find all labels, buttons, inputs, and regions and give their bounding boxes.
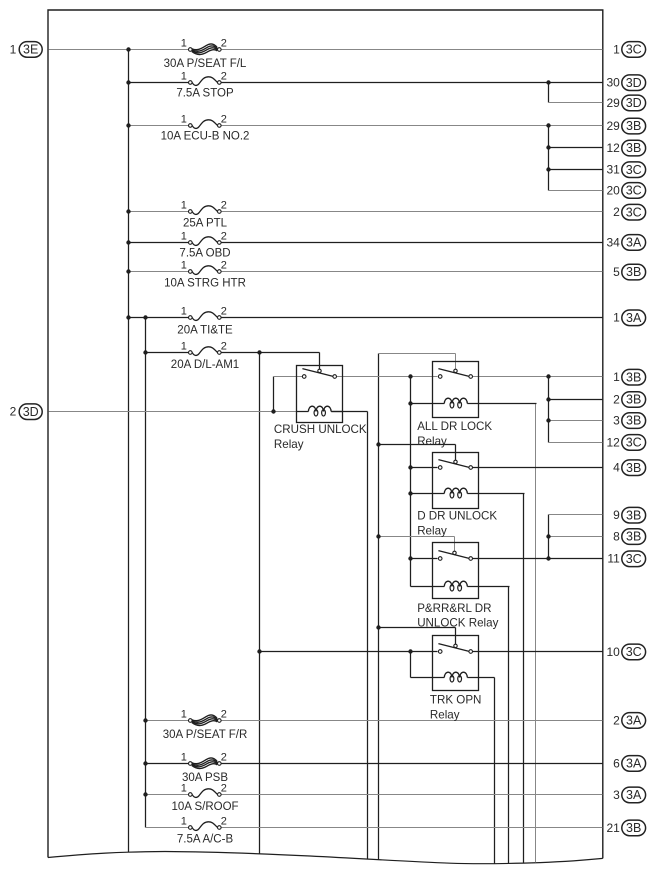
svg-text:2: 2 bbox=[221, 113, 227, 125]
node 21(3B) connector pin label bbox=[606, 820, 645, 836]
wire branch to pins 9-3B 8-3B bbox=[547, 515, 549, 559]
svg-text:2: 2 bbox=[221, 37, 227, 49]
svg-text:20A D/L-AM1: 20A D/L-AM1 bbox=[171, 359, 239, 371]
svg-text:3C: 3C bbox=[626, 436, 642, 450]
wire feed to TRK OPN relay common bbox=[378, 627, 455, 629]
svg-text:3B: 3B bbox=[626, 119, 641, 133]
junction lower bus / S-ROOF row bbox=[143, 792, 147, 796]
svg-text:2: 2 bbox=[221, 815, 227, 827]
svg-text:CRUSH UNLOCK: CRUSH UNLOCK bbox=[274, 423, 367, 436]
svg-text:3: 3 bbox=[613, 788, 620, 802]
relay ALL DR LOCK bbox=[433, 362, 479, 418]
svg-text:Relay: Relay bbox=[417, 435, 447, 448]
svg-text:1: 1 bbox=[181, 37, 187, 49]
wire P&RR&RL contact to pin 11-3C bbox=[472, 558, 602, 560]
wire to pin 20-3C bbox=[549, 190, 603, 192]
junction TRK contact row branch bbox=[408, 649, 412, 653]
wire PSB fuse row left bbox=[145, 762, 188, 764]
label TRK OPN Relay bbox=[430, 694, 482, 722]
wire D/L-AM1 fuse output bbox=[222, 351, 320, 353]
svg-text:1: 1 bbox=[181, 815, 187, 827]
wire 3D input row to CRUSH coil bbox=[49, 410, 309, 412]
wire P&RR&RL contact input bbox=[410, 558, 437, 560]
wire D DR UNLOCK contact to pin 4-3B bbox=[472, 467, 602, 469]
svg-text:1: 1 bbox=[181, 113, 187, 125]
wire branch to pins 12-3B 31-3C 20-3C bbox=[548, 126, 550, 191]
svg-text:1: 1 bbox=[181, 199, 187, 211]
wire ALL DR LOCK contact to pin 1-3B bbox=[473, 376, 603, 378]
wire P/SEAT F/R fuse row left bbox=[145, 719, 188, 721]
svg-text:3C: 3C bbox=[626, 43, 642, 57]
relay D DR UNLOCK bbox=[432, 453, 478, 509]
svg-text:2: 2 bbox=[10, 405, 17, 419]
relay TRK OPN bbox=[432, 636, 478, 691]
label CRUSH UNLOCK Relay bbox=[274, 423, 367, 451]
svg-text:3C: 3C bbox=[626, 163, 642, 177]
wire vertical bus along relay contacts/coils bbox=[409, 377, 411, 587]
wire STOP fuse to pin 30-3D bbox=[222, 81, 603, 83]
svg-text:1: 1 bbox=[181, 305, 187, 317]
fuse F5 7.5A OBD bbox=[179, 230, 230, 259]
svg-text:3E: 3E bbox=[23, 42, 38, 56]
svg-text:Relay: Relay bbox=[430, 708, 460, 721]
node 9(3B) connector pin label bbox=[613, 507, 645, 523]
junction 8-3B branch bbox=[546, 534, 550, 538]
wire TRK OPN relay common pin bbox=[454, 628, 456, 645]
node 31(3C) connector pin label bbox=[606, 162, 645, 178]
svg-text:Relay: Relay bbox=[274, 438, 304, 451]
svg-text:5: 5 bbox=[613, 265, 620, 279]
svg-text:3A: 3A bbox=[626, 757, 642, 771]
fuse F11 10A S/ROOF bbox=[171, 782, 238, 813]
wire feed to P&RR&RL relay common bbox=[378, 536, 454, 538]
label P&RR&RL DR UNLOCK Relay bbox=[417, 602, 498, 630]
fuse F2 7.5A STOP bbox=[176, 70, 234, 99]
svg-text:20A TI&TE: 20A TI&TE bbox=[177, 324, 233, 336]
svg-text:UNLOCK Relay: UNLOCK Relay bbox=[417, 617, 498, 630]
junction 3-3B branch bbox=[546, 418, 550, 422]
junction contact bus / P&RR contact row bbox=[408, 556, 412, 560]
node 6(3A) connector pin label bbox=[613, 756, 645, 772]
junction common bus / TRK feed bbox=[376, 625, 380, 629]
wire vertical bus feeding lower fuses bbox=[144, 317, 146, 827]
wire OBD fuse to pin 34-3A bbox=[222, 241, 603, 243]
svg-text:2: 2 bbox=[221, 340, 227, 352]
svg-text:30: 30 bbox=[606, 76, 620, 90]
node 12(3C) connector pin label bbox=[606, 435, 645, 451]
wire STOP fuse row left bbox=[129, 81, 189, 83]
svg-text:3A: 3A bbox=[626, 788, 642, 802]
junction 11-3C branch bbox=[546, 556, 550, 560]
svg-text:3B: 3B bbox=[626, 508, 641, 522]
wire PSB fuse to pin 6-3A bbox=[221, 762, 602, 764]
svg-text:3: 3 bbox=[613, 414, 620, 428]
wire feed to D DR UNLOCK relay common bbox=[379, 444, 456, 446]
svg-text:1: 1 bbox=[181, 259, 187, 271]
wire TRK OPN contact to pin 10-3C bbox=[471, 651, 602, 653]
fuse F1 30A P/SEAT F/L bbox=[164, 37, 247, 70]
fuse F7 20A TI&TE bbox=[177, 305, 233, 336]
svg-text:12: 12 bbox=[606, 435, 620, 449]
node 10(3C) connector pin label bbox=[606, 644, 645, 660]
junction 2-3B branch bbox=[546, 397, 550, 401]
node 2(3B) connector pin label bbox=[613, 392, 645, 408]
fuse F3 10A ECU-B NO.2 bbox=[161, 113, 250, 142]
node 2(3C) connector pin label bbox=[613, 204, 645, 220]
wire P/SEAT F/R fuse to pin 2-3A bbox=[221, 719, 602, 721]
svg-text:2: 2 bbox=[613, 713, 620, 727]
svg-text:3B: 3B bbox=[626, 461, 641, 475]
svg-text:2: 2 bbox=[221, 259, 227, 271]
wire to pin 31-3C bbox=[549, 169, 603, 171]
wire vertical from D/L-AM1 output bbox=[258, 352, 260, 853]
node 1(3A) connector pin label bbox=[613, 310, 645, 326]
wire ECU-B fuse to pin 29-3B bbox=[222, 124, 603, 126]
svg-text:10A S/ROOF: 10A S/ROOF bbox=[171, 801, 238, 813]
svg-text:3C: 3C bbox=[626, 552, 642, 566]
svg-text:10A ECU-B NO.2: 10A ECU-B NO.2 bbox=[161, 130, 250, 142]
svg-text:1: 1 bbox=[181, 340, 187, 352]
wire PTL fuse row left bbox=[129, 210, 189, 212]
wire TI&TE fuse to pin 1-3A bbox=[222, 316, 603, 318]
svg-text:7.5A STOP: 7.5A STOP bbox=[176, 87, 234, 99]
node 30(3D) connector pin label bbox=[606, 75, 645, 91]
junction 3E bus / OBD row bbox=[126, 240, 130, 244]
svg-text:11: 11 bbox=[607, 552, 620, 566]
svg-text:2: 2 bbox=[221, 199, 227, 211]
wire D/L-AM1 fuse row left bbox=[146, 351, 189, 353]
junction contact bus / D DR coil bbox=[408, 491, 412, 495]
node 2(3A) connector pin label bbox=[613, 713, 645, 729]
svg-text:12: 12 bbox=[606, 141, 620, 155]
wire feed to ALL DR LOCK relay common bbox=[379, 353, 456, 355]
label ALL DR LOCK Relay bbox=[417, 420, 492, 448]
svg-text:4: 4 bbox=[613, 461, 620, 475]
svg-text:25A PTL: 25A PTL bbox=[183, 218, 228, 230]
svg-text:3B: 3B bbox=[626, 370, 641, 384]
junction contact bus / switch row bbox=[408, 374, 412, 378]
svg-text:8: 8 bbox=[613, 530, 620, 544]
svg-text:Relay: Relay bbox=[417, 525, 447, 538]
wire branch to CRUSH UNLOCK relay contact bbox=[273, 376, 275, 411]
wire S/ROOF fuse to pin 3-3A bbox=[221, 793, 602, 795]
svg-text:3A: 3A bbox=[626, 236, 642, 250]
node 12(3B) connector pin label bbox=[606, 140, 645, 156]
junction 3D row / CRUSH contact branch bbox=[271, 409, 275, 413]
wire vertical bus feeding relay commons bbox=[377, 354, 379, 860]
junction lower bus / P-SEAT F-R row bbox=[143, 718, 147, 722]
svg-text:1: 1 bbox=[613, 311, 620, 325]
junction lower bus / PSB row bbox=[143, 761, 147, 765]
wire P&RR&RL coil output to bottom bbox=[507, 587, 509, 864]
wire OBD fuse row left bbox=[129, 241, 189, 243]
node 1(3B) connector pin label bbox=[613, 369, 645, 385]
wire to pin 29-3D bbox=[549, 102, 603, 104]
wire TRK OPN coil input bbox=[410, 677, 432, 679]
svg-text:2: 2 bbox=[613, 205, 620, 219]
torn-edge bottom border curve bbox=[48, 851, 603, 863]
svg-text:2: 2 bbox=[221, 708, 227, 720]
wire A/C-B fuse to pin 21-3B bbox=[221, 826, 602, 828]
wire from CRUSH UNLOCK relay coil to bottom bbox=[366, 412, 368, 859]
svg-text:1: 1 bbox=[613, 42, 620, 56]
svg-text:3B: 3B bbox=[626, 821, 641, 835]
svg-text:3D: 3D bbox=[626, 96, 642, 110]
wire P&RR&RL coil input bbox=[410, 586, 432, 588]
svg-text:29: 29 bbox=[606, 119, 620, 133]
wire STRG HTR fuse to pin 5-3B bbox=[222, 270, 603, 272]
svg-text:2: 2 bbox=[221, 782, 227, 794]
svg-text:1: 1 bbox=[613, 370, 620, 384]
wire to pin 3-3B bbox=[549, 420, 603, 422]
svg-text:30A P/SEAT F/L: 30A P/SEAT F/L bbox=[164, 58, 247, 70]
fuse F9 30A P/SEAT F/R bbox=[163, 708, 248, 741]
node 2(3D) connector pin label bbox=[10, 404, 43, 420]
wire P&RR&RL DR UNLOCK relay common pin bbox=[453, 537, 455, 552]
wire CRUSH relay contact input bbox=[274, 375, 303, 377]
node 3(3A) connector pin label bbox=[613, 787, 645, 803]
junction common bus / D DR feed bbox=[376, 442, 380, 446]
relay P&RR&RL DR UNLOCK bbox=[432, 543, 478, 599]
svg-text:3B: 3B bbox=[626, 414, 641, 428]
wire ALL DR coil output bbox=[479, 403, 537, 405]
wire ALL DR coil input bbox=[411, 403, 433, 405]
wire to pin 12-3C bbox=[549, 442, 603, 444]
wire branch TRK OPN contact to coil bbox=[409, 652, 411, 678]
node 5(3B) connector pin label bbox=[613, 264, 645, 280]
svg-text:3B: 3B bbox=[626, 141, 641, 155]
wire branch to pin 29-3D bbox=[548, 83, 550, 103]
wire D DR coil output to bottom bbox=[522, 494, 524, 864]
junction 1-3B branch bbox=[546, 374, 550, 378]
svg-text:9: 9 bbox=[613, 508, 620, 522]
wire TRK OPN coil output bbox=[478, 677, 494, 679]
fuse F8 20A D/L-AM1 bbox=[171, 340, 239, 371]
wire P&RR&RL coil output bbox=[478, 586, 509, 588]
junction TRK OPN contact feed bbox=[257, 649, 261, 653]
wire 3E input row left of fuse bbox=[49, 48, 189, 50]
svg-text:2: 2 bbox=[221, 70, 227, 82]
svg-text:3D: 3D bbox=[626, 76, 642, 90]
svg-text:6: 6 bbox=[613, 756, 620, 770]
svg-text:29: 29 bbox=[606, 96, 620, 110]
svg-text:3C: 3C bbox=[626, 184, 642, 198]
svg-text:2: 2 bbox=[221, 305, 227, 317]
svg-text:ALL DR LOCK: ALL DR LOCK bbox=[417, 420, 492, 433]
junction lower bus / TI&TE row bbox=[143, 315, 147, 319]
wire to pin 2-3B bbox=[549, 399, 603, 401]
wire to pin 9-3B bbox=[548, 514, 602, 516]
svg-text:3A: 3A bbox=[626, 714, 642, 728]
svg-text:3C: 3C bbox=[626, 205, 642, 219]
wire to pin 12-3B bbox=[549, 147, 603, 149]
junction contact bus / D DR contact row bbox=[408, 465, 412, 469]
node 20(3C) connector pin label bbox=[606, 183, 645, 199]
junction 29-3B branch bbox=[546, 123, 550, 127]
junction 3E bus / STRG HTR row bbox=[126, 269, 130, 273]
wire ALL DR LOCK relay common pin bbox=[455, 354, 457, 370]
junction 3E bus / ECU-B row bbox=[126, 123, 130, 127]
junction 12-3B branch bbox=[546, 145, 550, 149]
svg-text:7.5A A/C-B: 7.5A A/C-B bbox=[177, 834, 234, 846]
junction lower bus / D/L-AM1 row bbox=[143, 350, 147, 354]
svg-text:1: 1 bbox=[10, 42, 17, 56]
junction common bus / P&RR feed bbox=[376, 534, 380, 538]
svg-text:30A P/SEAT F/R: 30A P/SEAT F/R bbox=[163, 729, 248, 741]
svg-text:7.5A OBD: 7.5A OBD bbox=[179, 247, 230, 259]
svg-text:10A STRG HTR: 10A STRG HTR bbox=[164, 278, 246, 290]
svg-text:10: 10 bbox=[606, 645, 620, 659]
fuse F12 7.5A A/C-B bbox=[177, 815, 234, 845]
node 8(3B) connector pin label bbox=[613, 529, 645, 545]
svg-text:2: 2 bbox=[221, 751, 227, 763]
wire branch to pins 2-3B 3-3B 12-3C bbox=[548, 377, 550, 443]
svg-text:3B: 3B bbox=[626, 530, 641, 544]
fuse F10 30A PSB bbox=[181, 751, 229, 784]
wire CRUSH UNLOCK relay common pin bbox=[319, 353, 321, 370]
node 1(3E) connector pin label bbox=[10, 42, 43, 58]
wire to pin 8-3B bbox=[548, 536, 602, 538]
wire D DR UNLOCK contact input bbox=[410, 467, 437, 469]
svg-text:3A: 3A bbox=[626, 311, 642, 325]
junction D/L-AM1 output branch bbox=[257, 350, 261, 354]
wire A/C-B fuse row left bbox=[145, 826, 188, 828]
node 29(3B) connector pin label bbox=[606, 118, 645, 134]
wire TI&TE fuse row left bbox=[129, 316, 189, 318]
svg-text:20: 20 bbox=[606, 183, 620, 197]
node 29(3D) connector pin label bbox=[606, 95, 645, 111]
wire TRK OPN coil output to bottom bbox=[493, 678, 495, 864]
svg-text:D DR UNLOCK: D DR UNLOCK bbox=[417, 510, 497, 523]
svg-text:1: 1 bbox=[181, 708, 187, 720]
wire ECU-B fuse row left bbox=[129, 124, 189, 126]
relay CRUSH UNLOCK bbox=[297, 365, 343, 422]
svg-text:31: 31 bbox=[606, 163, 620, 177]
junction 3E bus / P-SEAT F-L row bbox=[126, 47, 130, 51]
svg-text:TRK OPN: TRK OPN bbox=[430, 694, 482, 707]
wire ALL DR coil output to bottom bbox=[534, 404, 536, 863]
svg-text:P&RR&RL DR: P&RR&RL DR bbox=[417, 602, 491, 615]
junction 30-3D / 29-3D branch bbox=[546, 80, 550, 84]
fuse F6 10A STRG HTR bbox=[164, 259, 246, 289]
svg-text:1: 1 bbox=[181, 70, 187, 82]
svg-text:3B: 3B bbox=[626, 393, 641, 407]
wire vertical bus from 3E feed bbox=[127, 49, 129, 852]
svg-text:3C: 3C bbox=[626, 645, 642, 659]
svg-text:1: 1 bbox=[181, 782, 187, 794]
junction 3E bus / STOP row bbox=[126, 80, 130, 84]
svg-text:1: 1 bbox=[181, 230, 187, 242]
svg-text:2: 2 bbox=[613, 392, 620, 406]
svg-text:2: 2 bbox=[221, 230, 227, 242]
node 1(3C) connector pin label bbox=[613, 42, 645, 58]
wire TRK OPN contact input bbox=[259, 650, 437, 652]
node 4(3B) connector pin label bbox=[613, 460, 645, 476]
label D DR UNLOCK Relay bbox=[417, 510, 497, 538]
wire S/ROOF fuse row left bbox=[145, 793, 188, 795]
wire STRG HTR fuse row left bbox=[129, 270, 189, 272]
node 3(3B) connector pin label bbox=[613, 413, 645, 429]
svg-text:34: 34 bbox=[606, 235, 620, 249]
junction 3E bus / TI&TE row bbox=[126, 315, 130, 319]
fuse F4 25A PTL bbox=[181, 199, 228, 229]
node 34(3A) connector pin label bbox=[606, 235, 645, 251]
node 11(3C) connector pin label bbox=[607, 551, 645, 567]
svg-text:1: 1 bbox=[181, 751, 187, 763]
wire CRUSH coil output bbox=[332, 411, 368, 413]
junction contact bus / ALL DR coil bbox=[408, 401, 412, 405]
wire PTL fuse to pin 2-3C bbox=[222, 210, 603, 212]
junction 31-3C branch bbox=[546, 167, 550, 171]
wire D DR coil output bbox=[478, 493, 524, 495]
wire D DR coil input bbox=[410, 493, 432, 495]
wire P/SEAT F/L fuse to pin 1-3C bbox=[222, 48, 603, 50]
wire D DR UNLOCK relay common pin bbox=[454, 445, 456, 461]
svg-text:3B: 3B bbox=[626, 265, 641, 279]
svg-text:3D: 3D bbox=[23, 405, 39, 419]
svg-text:21: 21 bbox=[606, 821, 620, 835]
wire CRUSH to ALL DR LOCK contact bbox=[337, 376, 438, 378]
junction 3E bus / PTL row bbox=[126, 209, 130, 213]
